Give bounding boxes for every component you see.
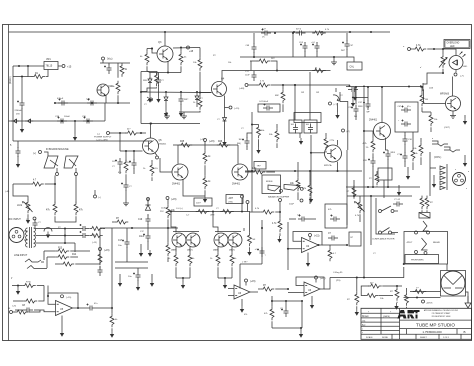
switch box compliance — [376, 198, 395, 234]
svg-text:(+): (+) — [33, 153, 36, 155]
wire vert 310b — [309, 72, 311, 120]
wire row 262 — [115, 261, 148, 263]
ground bc — [299, 327, 303, 338]
resistor R43 — [166, 200, 176, 229]
wire bc stub — [271, 296, 273, 301]
ground upper sw — [397, 185, 401, 196]
wire q7 c — [150, 124, 152, 139]
svg-text:4P.DT: 4P.DT — [407, 242, 414, 244]
resistor R48 — [203, 165, 211, 196]
capacitor C20 — [139, 224, 151, 242]
svg-text:1W: 1W — [301, 92, 304, 94]
op-amp U2B — [302, 238, 319, 253]
svg-text:(Vcc): (Vcc) — [107, 59, 113, 61]
terminal u5 vcc — [61, 295, 72, 299]
wire opto drop A — [54, 176, 56, 203]
svg-text:1%: 1% — [155, 168, 158, 170]
wire q8 c — [177, 145, 179, 164]
resistor R35 — [429, 112, 438, 132]
svg-text:4k: 4k — [315, 68, 317, 70]
svg-text:(+?): (+?) — [460, 76, 464, 78]
wire left rail — [8, 25, 10, 341]
label power note — [94, 137, 112, 142]
svg-text:x: x — [466, 188, 467, 190]
wire vr2 elbow — [5, 184, 28, 200]
resistor R56 — [272, 218, 282, 232]
capacitor C60 — [237, 133, 252, 150]
wire q6 e — [386, 138, 389, 151]
svg-text:?: ? — [362, 333, 363, 335]
node row103 92 — [91, 102, 93, 104]
connector J4 jack — [444, 147, 460, 152]
ground r38b — [432, 175, 436, 188]
transistor Q14 — [324, 145, 342, 167]
resistor R73 — [413, 288, 427, 294]
wire r7r8 bottom — [55, 216, 76, 222]
connector P1 header — [440, 164, 447, 190]
diode D1 — [11, 119, 19, 123]
ground C1 — [20, 108, 24, 132]
svg-text:(+15): (+15) — [92, 242, 97, 244]
capacitor C45b — [296, 29, 306, 36]
wire q4 emitter — [224, 96, 226, 108]
resistor R20 — [13, 310, 41, 314]
svg-text:C3.3: C3.3 — [299, 42, 303, 44]
wire q8 e — [183, 179, 205, 196]
terminal out lo — [422, 300, 433, 305]
title block frame — [361, 308, 472, 339]
svg-text:LINE: LINE — [210, 215, 215, 217]
resistor R78 — [405, 288, 409, 308]
svg-text:APPLIED RESEARCH & TECHNOLOGY: APPLIED RESEARCH & TECHNOLOGY INC — [424, 309, 459, 312]
wire col252 — [251, 112, 253, 212]
wire u2b in2 — [288, 248, 302, 250]
svg-text:L TR?: L TR? — [242, 262, 248, 264]
node bus 293 — [292, 32, 294, 34]
label cal box — [347, 57, 362, 70]
wire q6 base — [363, 130, 374, 132]
resistor R23 — [140, 49, 150, 73]
svg-text:(OUT): (OUT) — [444, 127, 450, 129]
wire q12 tops — [213, 212, 218, 233]
terminal u3b vcc — [315, 276, 326, 283]
wire psu row141 — [13, 140, 152, 142]
terminal +48 row — [239, 84, 248, 91]
label q12 — [213, 249, 235, 252]
inverter B — [64, 156, 78, 168]
capacitor C30 — [86, 99, 97, 106]
svg-text:L10k: L10k — [17, 205, 23, 207]
svg-text:(+15): (+15) — [66, 297, 71, 299]
capacitor C25 — [330, 215, 340, 222]
connector J1 XLR — [9, 228, 24, 243]
svg-text:ROCHESTER NY 14608: ROCHESTER NY 14608 — [432, 316, 451, 318]
wire q5 collector — [452, 77, 454, 97]
wire col262 — [261, 220, 263, 264]
wire q9 base — [248, 170, 252, 172]
ground psu mid — [331, 56, 337, 65]
svg-text:1M: 1M — [239, 139, 242, 141]
svg-text:R14: R14 — [72, 254, 77, 256]
svg-text:ART: ART — [229, 197, 234, 200]
wire t2 lower — [404, 297, 441, 299]
svg-text:Drawn: Drawn — [362, 315, 369, 318]
wire bc right — [301, 301, 303, 328]
buffer flag A — [268, 185, 283, 192]
svg-text:RELAY: RELAY — [433, 241, 441, 244]
diode D7 — [145, 198, 150, 210]
wire col120 — [119, 133, 121, 151]
loop box caps — [395, 102, 418, 132]
wire u3a in2 — [228, 295, 234, 297]
svg-text:App: App — [362, 324, 365, 327]
wire opto top — [44, 152, 48, 156]
transistor Q8 — [172, 164, 188, 186]
svg-text:10uF: 10uF — [245, 75, 250, 77]
wire pair bottoms — [176, 277, 190, 279]
wire row976 — [353, 97, 368, 99]
resistor R11 — [79, 224, 105, 231]
capacitor C4 — [258, 101, 280, 112]
resistor R84 — [411, 132, 418, 170]
title block num row — [400, 329, 472, 335]
wire row112 — [179, 111, 201, 113]
capacitor C48 — [299, 42, 308, 57]
svg-text:(+15): (+15) — [320, 278, 326, 280]
svg-text:(9VAC): (9VAC) — [9, 76, 12, 84]
svg-text:LED: LED — [463, 66, 468, 68]
ground psu mid2 — [73, 120, 77, 141]
node t2 lower — [416, 296, 418, 298]
svg-text:25V: 25V — [16, 114, 20, 116]
wire mid rail 187 — [346, 186, 420, 188]
inverter A — [44, 156, 58, 168]
svg-text:BALANCED BUFFER: BALANCED BUFFER — [268, 195, 290, 198]
capacitor C22 — [328, 233, 338, 241]
wire vert 362 — [363, 88, 370, 279]
op-amp U3B — [304, 282, 320, 296]
resistor R58 — [264, 301, 274, 328]
resistor R83 — [252, 125, 265, 148]
resistor R77 — [390, 285, 399, 301]
svg-text:(+48): (+48) — [239, 88, 244, 90]
ground c58 — [180, 110, 182, 114]
capacitor C37b — [348, 86, 359, 120]
logo address — [424, 309, 459, 318]
transistor Q5 — [440, 93, 461, 112]
op-amp U5A — [56, 301, 73, 316]
terminal bb2 — [300, 199, 303, 202]
resistor R38 — [413, 138, 423, 165]
svg-text:NONE: NONE — [382, 337, 388, 339]
terminal railr — [246, 201, 249, 212]
wire q4 base — [200, 92, 212, 94]
wire row 61 — [250, 58, 277, 71]
resistor R18 — [12, 286, 44, 308]
capacitor C32 — [82, 116, 93, 124]
wire diff top rail — [173, 144, 238, 146]
svg-text:CAL: CAL — [350, 66, 355, 69]
connector J3 jack — [432, 138, 448, 146]
node top bus junction A — [293, 31, 295, 33]
box 100pF A — [289, 120, 302, 134]
svg-text:(DATE): (DATE) — [383, 315, 390, 318]
resistor R34 — [420, 86, 428, 112]
terminal in term — [8, 308, 13, 314]
resistor R32 — [111, 63, 120, 103]
svg-text:COMPLIANCE FILTER: COMPLIANCE FILTER — [372, 238, 395, 241]
svg-text:C19: C19 — [138, 219, 143, 221]
wire u3b in2 — [288, 292, 304, 294]
resistor R25 — [193, 48, 202, 97]
capacitor C33 — [55, 116, 71, 124]
resistor R52 — [188, 247, 195, 278]
ground r19 — [110, 328, 114, 338]
resistor R42 — [143, 160, 158, 181]
ground tall mid — [335, 103, 339, 119]
wire t1 out b — [36, 234, 80, 236]
connector J5 XLR out — [453, 173, 466, 186]
wire vcc row — [100, 62, 130, 64]
wire q4 collector — [222, 71, 240, 82]
wire q9 c — [237, 145, 239, 164]
wire q14 base — [310, 152, 325, 154]
ground lc c — [150, 274, 154, 287]
svg-text:MIC INPUT: MIC INPUT — [8, 218, 21, 221]
resistor R45 — [179, 141, 193, 147]
resistor R68 — [302, 170, 312, 204]
wire u2b feedback — [293, 232, 322, 246]
capacitor C17b — [245, 61, 257, 81]
wire t2 feed — [410, 291, 441, 293]
svg-text:1W: 1W — [316, 92, 319, 94]
wire q11 tops — [171, 212, 176, 233]
wire rail 228 — [100, 227, 178, 229]
transistor Q4 — [212, 78, 227, 97]
ground c54 — [406, 167, 410, 180]
wire q6 c — [381, 86, 383, 123]
wire bc bottom — [272, 327, 302, 329]
resistor R19 — [110, 308, 118, 327]
transistor Q3 — [157, 41, 173, 62]
relay contacts — [415, 231, 430, 255]
ground pair a — [181, 277, 185, 289]
svg-text:100uF: 100uF — [64, 116, 71, 118]
capacitor C51 — [348, 85, 358, 99]
ground row976 — [351, 99, 355, 107]
capacitor C38 — [33, 217, 42, 229]
svg-text:(+): (+) — [98, 197, 101, 199]
wire u3a out — [250, 291, 258, 293]
wire u2b out right — [322, 244, 348, 246]
svg-text:(+): (+) — [97, 134, 100, 136]
ground mid arrow — [309, 135, 313, 203]
box output sw — [325, 204, 347, 228]
resistor R81 — [216, 208, 234, 214]
node u2b out — [317, 244, 319, 246]
wire q8 base — [160, 158, 172, 172]
wire module bottom — [141, 122, 200, 124]
svg-text:+15: +15 — [67, 66, 72, 69]
wire ac rail — [12, 66, 14, 141]
relay box K1 — [404, 232, 448, 265]
svg-text:+A?(?): +A?(?) — [426, 302, 433, 305]
zener D11 — [195, 92, 203, 107]
wire u3b fb — [296, 277, 324, 289]
wire psu vert 293 — [292, 33, 294, 57]
resistor R16 — [98, 251, 102, 266]
svg-text:(+?): (+?) — [334, 104, 338, 106]
wire q5 base — [426, 102, 446, 104]
svg-text:(+15): (+15) — [209, 141, 215, 143]
ground q13 area — [463, 115, 467, 125]
resistor R53 — [210, 247, 220, 278]
transistor Q13 fet — [418, 83, 434, 91]
resistor R40 — [110, 129, 147, 136]
resistor R2 — [120, 63, 128, 77]
node top bus junction E — [164, 31, 166, 33]
svg-text:Chk: Chk — [362, 320, 365, 322]
terminal d7 top — [147, 198, 150, 203]
svg-text:1 OF 1: 1 OF 1 — [443, 337, 450, 339]
node q7c — [149, 122, 151, 124]
svg-text:+C4: +C4 — [311, 42, 315, 44]
resistor R54 — [230, 247, 237, 278]
wire u5 inputs — [47, 286, 79, 310]
wire t1 out a — [36, 227, 80, 229]
svg-text:2N4401: 2N4401 — [159, 144, 167, 146]
relay funnel — [422, 238, 428, 250]
resistor R51 — [168, 247, 178, 278]
node relay out — [403, 263, 405, 265]
terminal Vcc — [102, 57, 113, 63]
svg-text:(+15): (+15) — [171, 199, 177, 201]
ground diff — [204, 196, 206, 200]
capacitor C16 — [403, 132, 413, 150]
wire base row 92 — [140, 91, 212, 93]
svg-text:1.75/8000-000: 1.75/8000-000 — [422, 330, 442, 334]
capacitor C54 — [397, 150, 408, 167]
svg-text:1M: 1M — [425, 99, 428, 101]
resistor R64 — [269, 124, 279, 148]
resistor R82 — [248, 212, 257, 250]
zener D9 — [217, 108, 227, 140]
zener D3 — [143, 73, 152, 97]
resistor R33 — [363, 131, 376, 152]
wire top bus — [9, 31, 391, 33]
box upper sw — [378, 168, 392, 180]
wire psu row103 — [54, 102, 130, 104]
wire led down — [455, 70, 457, 73]
ground r82 — [249, 249, 251, 253]
op-amp U3A — [234, 285, 250, 299]
resistor R15 — [55, 262, 100, 266]
capacitor C68 — [246, 33, 257, 57]
svg-text:(+15): (+15) — [250, 281, 256, 283]
svg-text:SCALE: SCALE — [366, 336, 373, 339]
ground row112 a — [164, 112, 170, 119]
capacitor C37a — [16, 141, 21, 161]
wire vert 371b — [370, 196, 372, 245]
ground u3a — [240, 299, 244, 313]
terminal mid left — [94, 190, 102, 199]
terminal bb1 — [279, 199, 282, 202]
node rail228 a — [167, 227, 169, 229]
ground fbnet — [394, 302, 398, 310]
capacitor C17 — [118, 228, 130, 248]
box cap mid — [194, 198, 212, 206]
capacitor C46 — [261, 29, 271, 39]
capacitor C21 — [128, 268, 141, 281]
wire vert 288 — [287, 222, 289, 270]
svg-text:(+/-15,+48V): (+/-15,+48V) — [96, 140, 108, 142]
ground lc b — [136, 280, 140, 290]
terminal q6 plus — [329, 102, 338, 106]
wire vert 100 — [99, 228, 101, 264]
terminal +48 — [187, 46, 194, 53]
capacitor C29 — [57, 98, 68, 106]
node u3 net — [287, 288, 289, 290]
svg-text:(+15): (+15) — [200, 139, 205, 141]
resistor R41 — [118, 151, 128, 181]
wire xlr to t1 a — [24, 230, 28, 232]
node psout — [356, 276, 358, 278]
svg-text:2200uF: 2200uF — [15, 110, 23, 112]
capacitor C58 — [179, 92, 190, 110]
potentiometer R70 — [355, 196, 365, 222]
transistor Q9 — [232, 164, 248, 186]
svg-text:(+15): (+15) — [234, 108, 239, 110]
resistor R80 — [176, 208, 209, 214]
svg-text:10u: 10u — [127, 162, 130, 164]
resistor R44 — [166, 228, 170, 262]
capacitor C43 — [86, 303, 98, 311]
wire t1 link — [64, 229, 66, 244]
svg-text:470uF: 470uF — [57, 98, 64, 100]
wire u5 out2 — [96, 268, 113, 309]
wire q3 to 48 — [173, 46, 200, 48]
resistor R13 — [44, 248, 90, 255]
svg-text:x: x — [455, 169, 456, 171]
resistor R30 — [411, 45, 435, 51]
wire u3a in — [228, 288, 234, 290]
node row121 62 — [61, 120, 63, 122]
svg-text:1%: 1% — [366, 147, 369, 149]
terminal +15 out — [58, 65, 72, 69]
capacitor C23 — [280, 300, 289, 317]
capacitor C20b — [363, 153, 376, 187]
label tr box — [254, 162, 266, 170]
resistor R46 — [217, 141, 231, 147]
switch pole A — [379, 206, 399, 213]
wire bc top — [271, 300, 303, 302]
capacitor C59 — [112, 158, 123, 174]
wire rail 211 — [168, 210, 250, 212]
node p48 — [282, 84, 284, 86]
resistor R65 — [324, 133, 334, 153]
resistor R8 — [74, 202, 84, 216]
transistor pair Q11 — [172, 232, 200, 248]
logo ART — [397, 310, 420, 319]
resistor R14 — [47, 254, 78, 260]
terminal opto o1 — [56, 168, 59, 176]
capacitor C57 — [383, 150, 396, 187]
terminal u2b vcc — [309, 234, 320, 241]
transformer T1 — [26, 227, 36, 248]
node top bus junction D — [370, 31, 372, 33]
box aux — [349, 232, 361, 246]
ground pair b — [223, 277, 227, 289]
